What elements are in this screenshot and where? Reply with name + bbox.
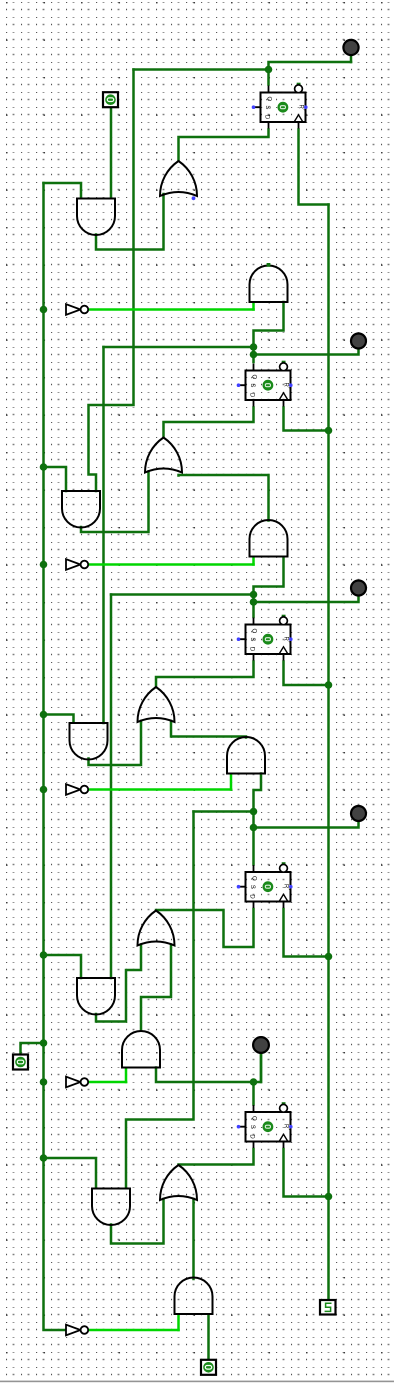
svg-text:D: D [249,647,255,652]
svg-text:R´: R´ [283,383,289,389]
svg-text:D: D [249,894,255,899]
svg-text:D: D [249,393,255,398]
svg-text:Q: Q [265,97,271,102]
svg-text:S: S [249,885,255,889]
svg-text:R´: R´ [283,1124,289,1130]
svg-text:R´: R´ [283,884,289,890]
svg-text:S: S [249,1125,255,1129]
svg-text:D: D [249,1134,255,1139]
svg-text:D: D [264,115,270,120]
svg-text:Q: Q [250,375,256,380]
svg-text:S: S [249,637,255,641]
svg-text:R´: R´ [298,105,304,111]
svg-text:R´: R´ [283,637,289,643]
svg-text:Q: Q [250,629,256,634]
svg-text:S: S [264,105,270,109]
svg-text:S: S [249,383,255,387]
svg-text:Q: Q [250,1116,256,1121]
svg-text:Q: Q [250,876,256,881]
